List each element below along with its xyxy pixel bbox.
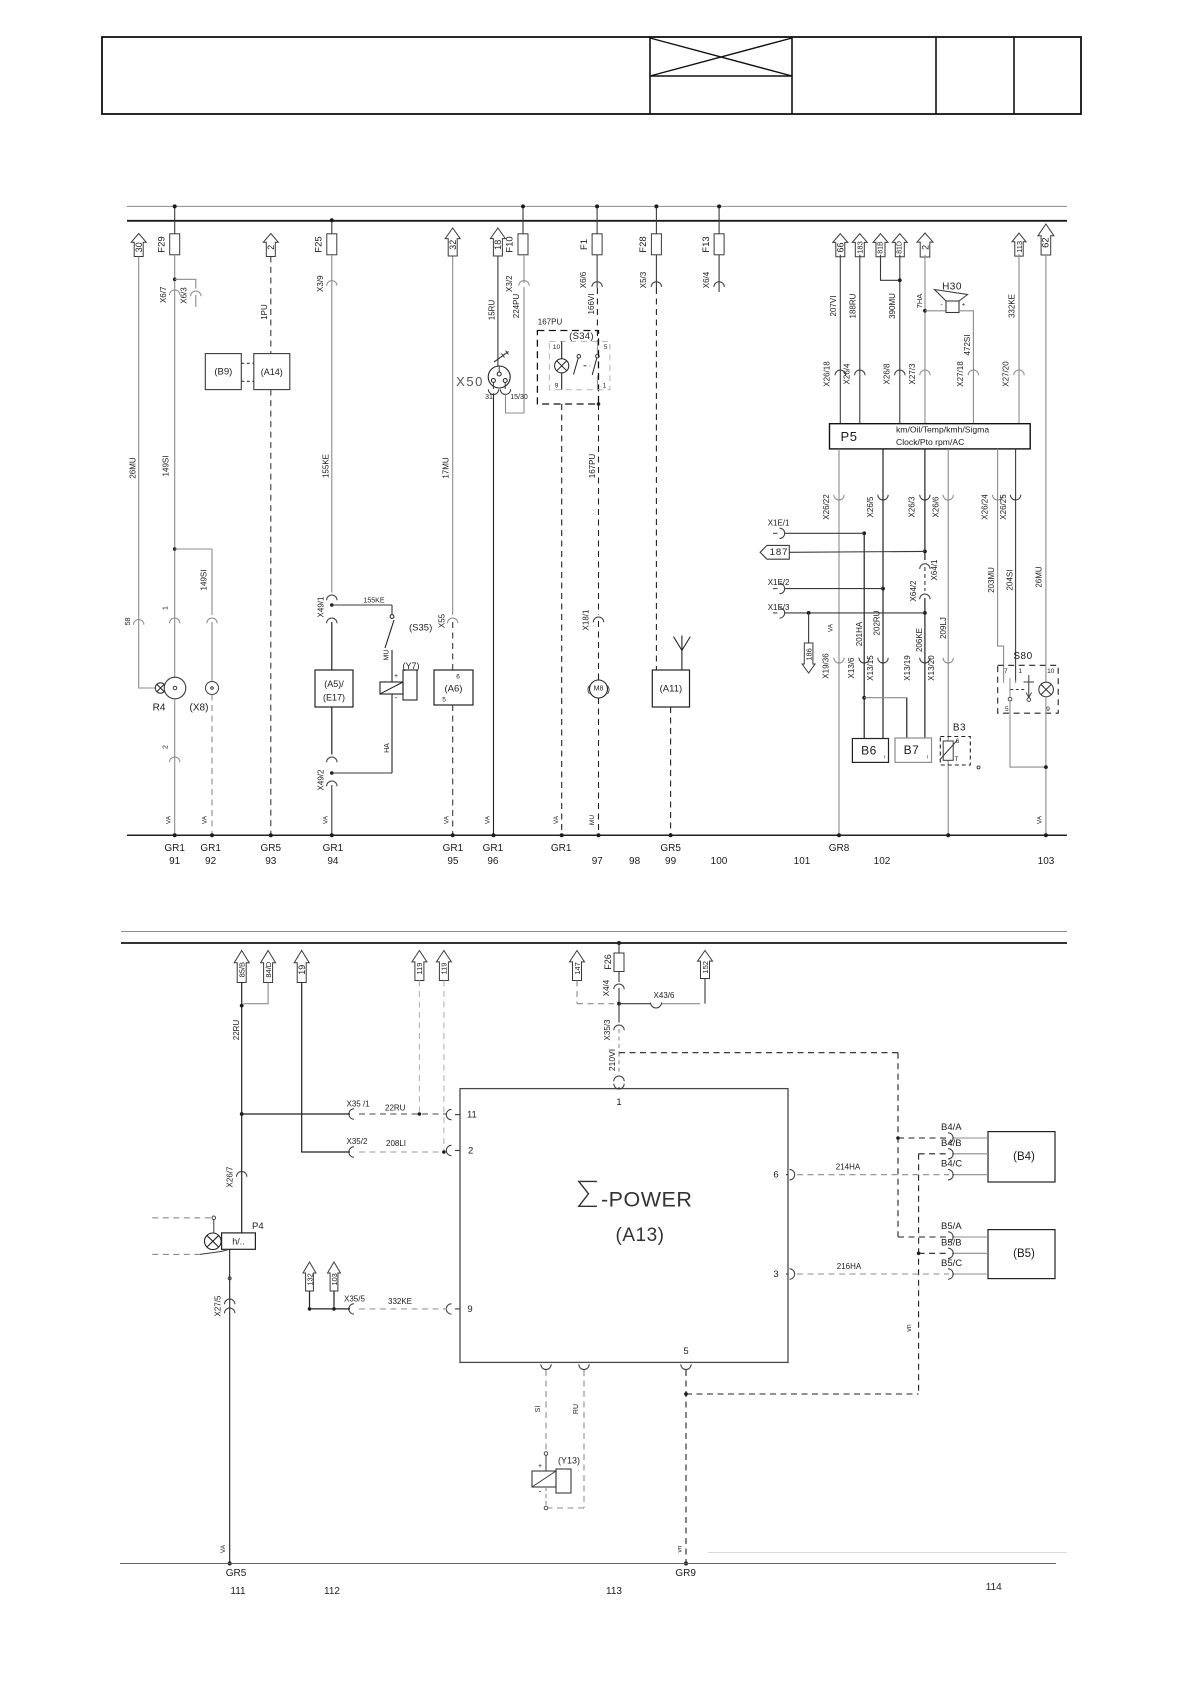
svg-text:P5: P5 [841, 429, 858, 444]
svg-text:7: 7 [1004, 668, 1008, 675]
svg-text:2: 2 [920, 245, 930, 250]
svg-text:X1E/1: X1E/1 [768, 519, 790, 528]
svg-text:167PU: 167PU [538, 318, 563, 327]
svg-text:X50: X50 [456, 374, 484, 389]
svg-text:X27/18: X27/18 [956, 361, 965, 387]
svg-text:X6/7: X6/7 [159, 286, 168, 303]
svg-text:167PU: 167PU [588, 454, 597, 479]
svg-text:97: 97 [592, 856, 604, 867]
svg-text:X64/2: X64/2 [909, 580, 918, 601]
svg-text:R4: R4 [153, 703, 166, 714]
svg-text:(A6): (A6) [445, 684, 463, 695]
svg-text:26MU: 26MU [1035, 566, 1044, 588]
svg-text:11: 11 [467, 1110, 477, 1121]
svg-text:B4/C: B4/C [941, 1159, 962, 1170]
svg-text:1: 1 [603, 383, 607, 390]
svg-text:X13/6: X13/6 [847, 657, 856, 678]
svg-text:6: 6 [956, 738, 960, 745]
svg-text:VA: VA [444, 815, 451, 824]
svg-text:(E17): (E17) [323, 693, 345, 703]
svg-text:X35/3: X35/3 [603, 1019, 612, 1040]
svg-text:15/30: 15/30 [510, 394, 528, 401]
svg-text:101: 101 [794, 856, 811, 867]
svg-text:203MU: 203MU [987, 567, 996, 593]
svg-text:85/B: 85/B [238, 962, 247, 977]
svg-text:15RU: 15RU [488, 300, 497, 321]
svg-text:X6/6: X6/6 [579, 271, 588, 288]
svg-text:(Y7): (Y7) [402, 661, 419, 671]
svg-text:186: 186 [805, 648, 814, 661]
svg-text:1: 1 [1018, 668, 1022, 675]
svg-text:): ) [607, 684, 610, 694]
svg-text:F28: F28 [638, 236, 649, 252]
svg-text:VA: VA [220, 1544, 227, 1553]
svg-text:32: 32 [448, 240, 458, 250]
svg-text:2: 2 [266, 245, 276, 250]
svg-text:166VI: 166VI [587, 294, 596, 315]
svg-text:X26/6: X26/6 [932, 496, 941, 517]
svg-text:GR1: GR1 [323, 843, 344, 854]
svg-text:GR1: GR1 [483, 843, 504, 854]
svg-text:X13/15: X13/15 [866, 655, 875, 681]
svg-text:6: 6 [773, 1170, 778, 1181]
svg-text:km/Oil/Temp/kmh/Sigma: km/Oil/Temp/kmh/Sigma [896, 425, 989, 435]
svg-text:149SI: 149SI [199, 570, 208, 591]
svg-text:X19/36: X19/36 [822, 653, 831, 679]
svg-text:22RU: 22RU [232, 1020, 241, 1041]
svg-text:183: 183 [856, 241, 865, 254]
svg-text:17MU: 17MU [442, 457, 451, 479]
svg-text:MU: MU [589, 815, 596, 825]
svg-text:62: 62 [1041, 237, 1052, 248]
svg-text:(X8): (X8) [190, 703, 209, 714]
svg-text:X35 /1: X35 /1 [347, 1100, 371, 1109]
svg-text:VA: VA [485, 815, 492, 824]
svg-text:472SI: 472SI [963, 335, 972, 356]
svg-text:332KE: 332KE [1008, 294, 1017, 318]
svg-text:10: 10 [1047, 668, 1055, 675]
svg-text:B5/A: B5/A [941, 1221, 962, 1232]
svg-text:X18/1: X18/1 [582, 609, 591, 630]
svg-text:9: 9 [555, 383, 559, 390]
svg-text:6: 6 [456, 674, 460, 681]
svg-text:149SI: 149SI [162, 456, 171, 477]
svg-text:X26/5: X26/5 [866, 496, 875, 517]
svg-text:(: ( [587, 684, 590, 694]
svg-text:+: + [962, 303, 966, 309]
svg-text:119: 119 [440, 963, 449, 975]
svg-text:84/D: 84/D [264, 961, 273, 977]
svg-text:209LJ: 209LJ [939, 617, 948, 639]
svg-text:187: 187 [770, 547, 789, 558]
svg-text:10: 10 [553, 344, 561, 351]
svg-text:18: 18 [493, 240, 503, 250]
svg-text:B4/A: B4/A [941, 1122, 962, 1133]
svg-text:19: 19 [297, 965, 307, 975]
svg-text:26MU: 26MU [129, 457, 138, 479]
svg-text:206KE: 206KE [915, 628, 924, 652]
svg-text:94: 94 [327, 856, 339, 867]
svg-text:(B5): (B5) [1013, 1248, 1035, 1260]
svg-text:MU: MU [384, 650, 391, 661]
svg-text:22RU: 22RU [385, 1104, 406, 1113]
svg-text:X27/20: X27/20 [1002, 361, 1011, 387]
svg-text:155KE: 155KE [321, 454, 330, 478]
svg-text:VA: VA [323, 815, 330, 824]
svg-text:X35/2: X35/2 [347, 1137, 368, 1146]
svg-text:-: - [539, 1487, 542, 1496]
svg-text:RU: RU [573, 1404, 580, 1414]
svg-text:(B9): (B9) [214, 367, 232, 378]
svg-text:X43/6: X43/6 [654, 991, 675, 1000]
svg-text:(A14): (A14) [261, 367, 283, 377]
svg-text:F1: F1 [579, 239, 590, 250]
svg-text:F25: F25 [314, 236, 325, 252]
svg-text:X49/2: X49/2 [317, 769, 326, 790]
svg-text:T: T [955, 756, 959, 763]
svg-text:S80: S80 [1013, 651, 1032, 662]
svg-text:100: 100 [711, 856, 728, 867]
svg-text:X26/3: X26/3 [908, 496, 917, 517]
svg-text:F29: F29 [156, 236, 167, 252]
svg-text:332KE: 332KE [388, 1297, 412, 1306]
svg-text:132: 132 [305, 1273, 314, 1286]
svg-text:P4: P4 [252, 1221, 264, 1232]
svg-text:-: - [395, 693, 398, 702]
svg-text:GR9: GR9 [675, 1568, 696, 1579]
svg-text:X5/3: X5/3 [639, 271, 648, 288]
svg-text:X1E/3: X1E/3 [768, 603, 790, 612]
svg-text:390MU: 390MU [888, 293, 897, 319]
svg-text:216HA: 216HA [837, 1262, 862, 1271]
svg-text:(A5)/: (A5)/ [324, 679, 344, 689]
svg-text:(Y13): (Y13) [558, 1456, 580, 1466]
svg-text:5: 5 [442, 697, 446, 704]
svg-text:GR5: GR5 [261, 843, 282, 854]
svg-text:5: 5 [604, 344, 608, 351]
svg-text:210VI: 210VI [607, 1049, 617, 1071]
svg-text:(B4): (B4) [1013, 1151, 1035, 1163]
svg-text:2: 2 [163, 745, 170, 749]
svg-text:99: 99 [665, 856, 677, 867]
svg-text:X26/7: X26/7 [226, 1166, 235, 1187]
svg-text:1: 1 [163, 606, 170, 610]
svg-text:X3/2: X3/2 [505, 275, 514, 292]
svg-text:111: 111 [230, 1586, 246, 1597]
svg-text:98: 98 [629, 856, 641, 867]
svg-text:5: 5 [1005, 706, 1009, 713]
svg-text:X26/4: X26/4 [843, 363, 852, 384]
svg-text:X13/19: X13/19 [903, 655, 912, 681]
svg-text:202RU: 202RU [873, 610, 882, 635]
svg-text:5: 5 [683, 1346, 688, 1357]
svg-text:102: 102 [874, 856, 891, 867]
svg-text:GR1: GR1 [551, 843, 572, 854]
svg-text:B4/B: B4/B [941, 1138, 962, 1149]
svg-text:X26/24: X26/24 [981, 494, 990, 520]
svg-text:VA: VA [553, 815, 560, 824]
svg-text:VA: VA [202, 815, 209, 824]
svg-text:X6/4: X6/4 [702, 271, 711, 288]
svg-text:X26/18: X26/18 [823, 361, 832, 387]
svg-text:2: 2 [468, 1146, 473, 1157]
svg-text:(S35): (S35) [409, 623, 432, 634]
svg-text:112: 112 [324, 1586, 340, 1597]
svg-text:152: 152 [701, 961, 710, 974]
svg-text:95: 95 [447, 856, 459, 867]
svg-text:201HA: 201HA [855, 621, 864, 646]
svg-text:58: 58 [125, 618, 132, 626]
svg-text:207VI: 207VI [829, 296, 838, 317]
svg-text:93: 93 [265, 856, 277, 867]
svg-text:66: 66 [836, 242, 846, 252]
svg-text:VA: VA [1037, 815, 1044, 824]
svg-text:+: + [394, 673, 398, 680]
svg-text:F10: F10 [505, 236, 516, 252]
svg-text:GR1: GR1 [443, 843, 464, 854]
svg-text:(S34): (S34) [569, 331, 594, 342]
svg-text:9: 9 [1046, 706, 1050, 713]
svg-text:(A13): (A13) [616, 1225, 665, 1246]
svg-text:M8: M8 [594, 686, 604, 693]
svg-text:214HA: 214HA [836, 1163, 861, 1172]
svg-text:9: 9 [467, 1304, 472, 1315]
svg-text:X4/4: X4/4 [602, 979, 611, 996]
svg-text:X13/20: X13/20 [927, 655, 936, 681]
svg-text:X26/22: X26/22 [822, 494, 831, 520]
svg-text:103: 103 [330, 1273, 339, 1286]
svg-text:X1E/2: X1E/2 [768, 578, 790, 587]
svg-text:103: 103 [1038, 856, 1055, 867]
svg-text:31: 31 [485, 394, 493, 401]
svg-text:h/..: h/.. [232, 1237, 245, 1247]
svg-text:3: 3 [773, 1269, 778, 1280]
svg-text:HA: HA [384, 743, 391, 753]
svg-text:X26/8: X26/8 [883, 363, 892, 384]
svg-text:147: 147 [573, 962, 582, 975]
svg-text:7HA: 7HA [915, 294, 924, 309]
svg-text:188RU: 188RU [849, 293, 858, 318]
svg-text:B5/B: B5/B [941, 1237, 962, 1248]
svg-text:GR5: GR5 [660, 843, 681, 854]
svg-text:30: 30 [134, 242, 144, 252]
svg-text:204SI: 204SI [1006, 570, 1015, 591]
svg-text:vn: vn [677, 1545, 684, 1552]
svg-text:X64/1: X64/1 [930, 559, 939, 580]
svg-text:B5/C: B5/C [941, 1258, 962, 1269]
svg-text:GR1: GR1 [164, 843, 185, 854]
svg-text:X26/25: X26/25 [999, 494, 1008, 520]
svg-text:X27/3: X27/3 [908, 363, 917, 384]
svg-text:X27/5: X27/5 [214, 1295, 223, 1316]
svg-text:B7: B7 [904, 743, 920, 757]
svg-text:X49/1: X49/1 [317, 596, 326, 617]
svg-text:Clock/Pto rpm/AC: Clock/Pto rpm/AC [896, 437, 964, 447]
svg-text:GR5: GR5 [226, 1568, 247, 1579]
svg-text:113: 113 [606, 1586, 622, 1597]
svg-text:113: 113 [1015, 241, 1024, 253]
svg-text:208LI: 208LI [386, 1139, 406, 1148]
svg-text:F26: F26 [603, 954, 613, 970]
svg-text:81D: 81D [897, 241, 904, 254]
svg-text:81B: 81B [877, 241, 884, 254]
svg-text:92: 92 [205, 856, 217, 867]
svg-text:B3: B3 [953, 723, 966, 734]
svg-text:X3/9: X3/9 [316, 275, 325, 292]
svg-text:114: 114 [986, 1582, 1002, 1593]
svg-text:224PU: 224PU [512, 294, 521, 319]
svg-text:1PU: 1PU [260, 304, 269, 320]
svg-text:1: 1 [616, 1097, 621, 1108]
svg-text:B6: B6 [861, 744, 877, 758]
svg-text:96: 96 [487, 856, 499, 867]
svg-text:119: 119 [415, 963, 424, 975]
svg-text:SI: SI [535, 1406, 542, 1413]
svg-text:(A11): (A11) [660, 684, 683, 695]
svg-text:VA: VA [828, 623, 835, 632]
svg-text:155KE: 155KE [363, 598, 384, 605]
svg-text:F13: F13 [701, 236, 712, 252]
svg-text:+: + [538, 1463, 542, 1470]
svg-text:X55: X55 [438, 613, 447, 628]
svg-text:GR1: GR1 [200, 843, 221, 854]
svg-text:-POWER: -POWER [601, 1187, 692, 1211]
svg-text:GR8: GR8 [829, 843, 850, 854]
svg-text:VA: VA [166, 815, 173, 824]
svg-text:91: 91 [169, 856, 181, 867]
svg-text:X35/5: X35/5 [344, 1295, 365, 1304]
svg-text:vn: vn [906, 1324, 913, 1332]
svg-text:X6/3: X6/3 [180, 287, 189, 304]
svg-text:H30: H30 [942, 282, 962, 293]
